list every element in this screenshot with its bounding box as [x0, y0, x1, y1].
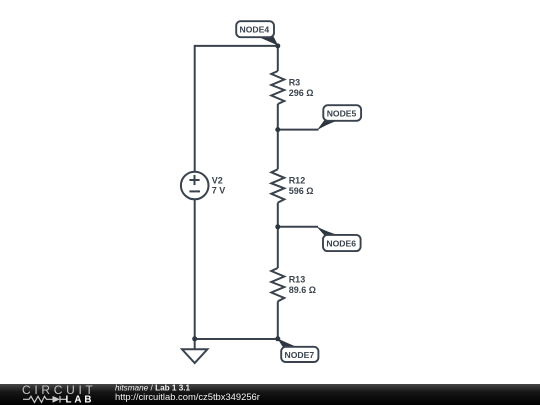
svg-text:NODE6: NODE6 — [326, 238, 356, 248]
svg-text:R3: R3 — [289, 77, 301, 87]
svg-text:NODE4: NODE4 — [239, 25, 269, 35]
svg-text:V2: V2 — [212, 175, 223, 185]
svg-text:R13: R13 — [289, 274, 306, 284]
svg-text:R12: R12 — [289, 176, 306, 186]
svg-text:NODE7: NODE7 — [284, 350, 314, 360]
svg-text:NODE5: NODE5 — [327, 108, 357, 118]
svg-text:596 Ω: 596 Ω — [289, 186, 314, 196]
svg-text:89.6 Ω: 89.6 Ω — [289, 285, 316, 295]
svg-text:http://circuitlab.com/cz5tbx34: http://circuitlab.com/cz5tbx349256r — [115, 391, 260, 402]
svg-text:7 V: 7 V — [212, 186, 226, 196]
svg-text:296 Ω: 296 Ω — [289, 88, 314, 98]
svg-text:LAB: LAB — [66, 395, 95, 405]
